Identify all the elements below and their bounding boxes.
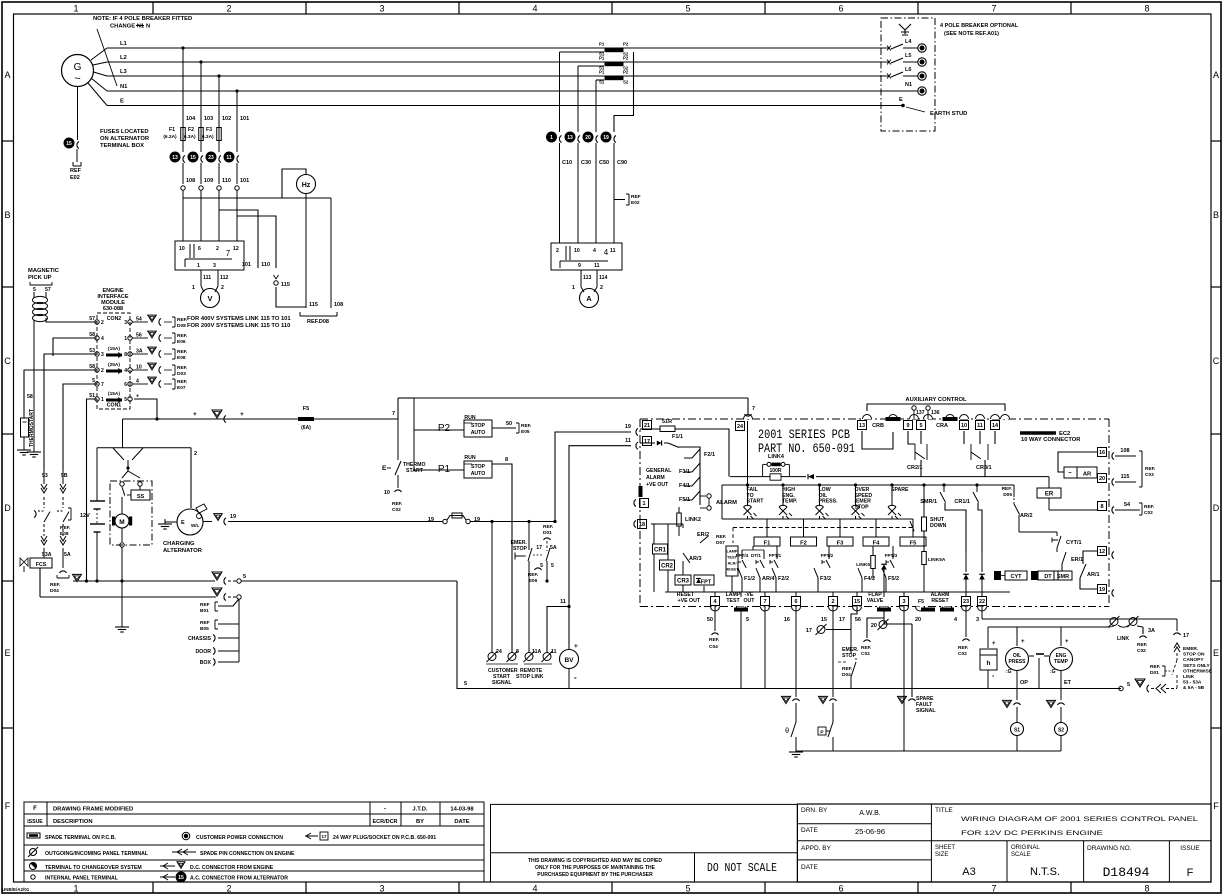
svg-text:2: 2 xyxy=(226,884,231,894)
svg-text:57: 57 xyxy=(89,316,95,322)
rail y447 feed xyxy=(122,419,124,448)
module pin 7/6 wire 5 xyxy=(95,382,99,386)
svg-text:DOOR: DOOR xyxy=(195,649,211,655)
svg-text:13: 13 xyxy=(859,423,865,429)
svg-text:E02: E02 xyxy=(631,200,640,206)
pcb mid rail y519 xyxy=(722,518,913,520)
module pin 3/8 wire 53 xyxy=(95,352,99,356)
svg-text:19: 19 xyxy=(474,517,480,523)
junction dots xyxy=(490,520,493,523)
module pin 2/4 wire 58 xyxy=(95,368,99,372)
svg-text:5A: 5A xyxy=(550,545,557,551)
svg-text:3: 3 xyxy=(976,617,979,623)
svg-text:2: 2 xyxy=(556,248,559,254)
svg-text:BOX: BOX xyxy=(200,660,212,666)
svg-text:FPT/1: FPT/1 xyxy=(769,553,782,558)
svg-text:OUTGOING/INCOMING PANEL TERMIN: OUTGOING/INCOMING PANEL TERMINAL xyxy=(45,851,149,857)
svg-text:15: 15 xyxy=(66,141,72,147)
svg-text:101: 101 xyxy=(240,116,249,122)
svg-text:L1: L1 xyxy=(120,41,128,47)
svg-text:8: 8 xyxy=(124,352,127,358)
emer stop on canopy branch xyxy=(1176,619,1178,631)
svg-text:+VE OUT: +VE OUT xyxy=(678,598,701,604)
svg-text:E: E xyxy=(120,99,124,105)
box bond xyxy=(218,661,239,663)
svg-text:101: 101 xyxy=(240,178,249,184)
svg-text:ECR/DCR: ECR/DCR xyxy=(372,819,397,825)
title block xyxy=(797,804,1211,882)
svg-text:4: 4 xyxy=(532,4,537,14)
svg-text:11: 11 xyxy=(594,263,600,269)
EC2 ten way connector xyxy=(1020,431,1056,435)
svg-text:P1: P1 xyxy=(599,56,605,61)
svg-text:5: 5 xyxy=(464,681,467,687)
svg-text:4: 4 xyxy=(124,368,127,374)
svg-text:7: 7 xyxy=(392,411,395,417)
aux terminals row xyxy=(858,421,867,430)
ref B01 bond xyxy=(218,599,239,606)
bus E xyxy=(107,105,881,107)
svg-text:REF.: REF. xyxy=(1002,486,1012,492)
svg-text:F5: F5 xyxy=(910,541,918,547)
AR/1 contact xyxy=(1080,564,1086,578)
svg-text:UNB/E/A2/01: UNB/E/A2/01 xyxy=(2,887,30,892)
pcb contact AR/4 xyxy=(756,568,760,578)
motor to ground xyxy=(121,547,123,625)
svg-text:REF.: REF. xyxy=(177,349,187,355)
svg-text:5: 5 xyxy=(1127,682,1130,688)
CYT DT SMR boxes xyxy=(994,571,1001,580)
wire 17 emer stop xyxy=(850,620,852,654)
svg-text:AUTO: AUTO xyxy=(471,430,486,436)
svg-text:111: 111 xyxy=(203,275,211,281)
svg-text:114: 114 xyxy=(599,275,607,281)
svg-text:(6.3A): (6.3A) xyxy=(163,134,177,140)
svg-text:11: 11 xyxy=(625,438,631,444)
svg-text:+: + xyxy=(1021,639,1025,645)
svg-text::G: :G xyxy=(1050,669,1056,675)
svg-text:N1: N1 xyxy=(120,84,128,90)
svg-text:RESET: RESET xyxy=(726,567,740,572)
wire 11 branch to remote stop xyxy=(547,607,569,653)
svg-text:136: 136 xyxy=(931,410,940,416)
svg-text:2: 2 xyxy=(831,599,834,605)
ref E06 spade xyxy=(535,568,542,570)
svg-text:N1: N1 xyxy=(905,82,912,88)
CR relays xyxy=(653,544,668,554)
svg-text:TITLE: TITLE xyxy=(935,807,953,814)
svg-text:+: + xyxy=(574,643,578,650)
svg-text:F4/1: F4/1 xyxy=(679,483,690,489)
3A link row xyxy=(988,626,1108,628)
module pin 4/1 wire 58 xyxy=(95,336,99,340)
svg-text:D07: D07 xyxy=(716,540,725,546)
wire 50 to REF E05 xyxy=(492,427,516,429)
svg-text:4: 4 xyxy=(593,248,596,254)
pcb contact F3/2 xyxy=(814,568,818,578)
svg-text:LINK: LINK xyxy=(1183,674,1195,680)
CR relay wiring xyxy=(651,523,683,525)
svg-text:G: G xyxy=(74,62,82,73)
wire 15 P switch xyxy=(832,606,834,697)
wire 7 into pcb top xyxy=(747,398,749,414)
wires 101 110 from columns xyxy=(219,210,258,268)
svg-text:20: 20 xyxy=(915,617,921,623)
dc connector triangle xyxy=(73,574,82,581)
svg-text:51: 51 xyxy=(89,393,95,399)
svg-text:N: N xyxy=(146,24,150,30)
svg-text:13: 13 xyxy=(172,155,178,161)
pcb contact F2/2 xyxy=(772,568,776,578)
svg-text:112: 112 xyxy=(220,275,228,281)
svg-text:C02: C02 xyxy=(861,651,870,657)
svg-text:S1: S1 xyxy=(1014,728,1020,734)
svg-text:115: 115 xyxy=(281,282,290,288)
pcb fuse F4 xyxy=(875,519,877,537)
wire 50 ref C04 xyxy=(714,606,716,631)
svg-text:ER: ER xyxy=(1045,492,1054,498)
svg-text:REF.: REF. xyxy=(50,582,60,588)
emergency stop switch xyxy=(528,522,530,551)
svg-text:1: 1 xyxy=(192,285,195,291)
svg-text:F5/2: F5/2 xyxy=(888,576,899,582)
svg-text:25-06-96: 25-06-96 xyxy=(855,827,885,836)
svg-text:F2: F2 xyxy=(800,541,807,547)
alarm ladder contacts xyxy=(684,457,692,459)
svg-text:REF.D08: REF.D08 xyxy=(307,319,329,325)
svg-text:E08: E08 xyxy=(60,531,69,537)
thermo start switch xyxy=(397,419,399,460)
svg-text:(6A): (6A) xyxy=(301,425,311,431)
svg-text:REF.: REF. xyxy=(177,317,187,323)
pcb fuse F1 xyxy=(766,519,768,537)
svg-text:PICK UP: PICK UP xyxy=(28,275,52,281)
svg-text:E: E xyxy=(181,520,185,526)
svg-text:D: D xyxy=(1213,503,1220,513)
svg-text:19: 19 xyxy=(1099,587,1105,593)
svg-text:REF.: REF. xyxy=(709,637,719,643)
svg-text:19: 19 xyxy=(230,514,236,520)
svg-text:DOWN: DOWN xyxy=(930,523,947,529)
svg-text:14: 14 xyxy=(992,423,999,429)
legend row 4 xyxy=(31,875,35,879)
svg-text:108: 108 xyxy=(334,302,343,308)
svg-text:24: 24 xyxy=(496,649,502,655)
svg-text:PRESS: PRESS xyxy=(1009,659,1027,665)
svg-text:θ: θ xyxy=(785,728,789,735)
pcb terminal 17 xyxy=(643,437,652,446)
svg-text:LINK4: LINK4 xyxy=(768,454,785,460)
svg-text:58: 58 xyxy=(27,394,33,400)
pcb bottom edge bumps xyxy=(711,607,720,612)
breaker neutral N1 xyxy=(881,90,918,92)
svg-text:58: 58 xyxy=(89,332,95,338)
svg-text:4: 4 xyxy=(101,336,104,342)
svg-text:110: 110 xyxy=(222,178,231,184)
svg-text:h: h xyxy=(987,660,991,667)
oil pressure sender xyxy=(1016,627,1018,646)
svg-text:REF.: REF. xyxy=(958,645,968,651)
svg-text:137: 137 xyxy=(916,410,925,416)
svg-text:D08: D08 xyxy=(177,323,186,329)
svg-text:OTHERWISE: OTHERWISE xyxy=(1183,668,1213,674)
svg-text:115: 115 xyxy=(309,302,318,308)
spade-pin ref E08 xyxy=(132,353,148,355)
svg-text:FPT/3: FPT/3 xyxy=(885,553,898,558)
issue table xyxy=(24,802,484,826)
svg-text:ALTERNATOR: ALTERNATOR xyxy=(163,548,203,554)
svg-text:(15A): (15A) xyxy=(108,391,120,397)
svg-text:F5/1: F5/1 xyxy=(679,497,690,503)
svg-text:TEST: TEST xyxy=(726,598,740,604)
svg-text:17: 17 xyxy=(321,834,327,839)
svg-text:5B: 5B xyxy=(61,473,68,479)
svg-text:5A: 5A xyxy=(64,552,71,558)
CT secondary drops xyxy=(560,51,605,53)
svg-text:EARTH STUD: EARTH STUD xyxy=(930,111,967,117)
svg-text:10: 10 xyxy=(574,248,580,254)
svg-text:REF.: REF. xyxy=(521,423,531,429)
svg-text:-: - xyxy=(574,673,577,682)
rail 5 drop and bottom rail xyxy=(457,581,1121,689)
svg-text:5: 5 xyxy=(540,563,543,569)
svg-text:2: 2 xyxy=(221,285,224,291)
svg-text:PURCHASED EQUIPMENT BY THE PUR: PURCHASED EQUIPMENT BY THE PURCHASER xyxy=(537,872,653,878)
wire 5 from lamp test xyxy=(740,612,742,689)
svg-text:54: 54 xyxy=(1124,502,1131,508)
svg-text:STOP: STOP xyxy=(842,653,857,659)
svg-text:53: 53 xyxy=(42,473,48,479)
Hz wiring hook xyxy=(282,169,306,198)
module left wires xyxy=(53,338,97,356)
svg-text:CYT: CYT xyxy=(1011,574,1023,580)
svg-text:4: 4 xyxy=(532,884,537,894)
svg-text:L5: L5 xyxy=(905,53,911,59)
svg-text:7: 7 xyxy=(763,599,766,605)
svg-text:CUSTOMER POWER CONNECTION: CUSTOMER POWER CONNECTION xyxy=(196,835,283,841)
ER/1 contact xyxy=(1056,548,1058,552)
svg-text:REF.: REF. xyxy=(842,666,852,672)
svg-text:(SEE NOTE REF.A01): (SEE NOTE REF.A01) xyxy=(944,31,999,37)
svg-text:20: 20 xyxy=(1099,476,1105,482)
coil ground xyxy=(33,447,35,452)
svg-text:2: 2 xyxy=(226,4,231,14)
svg-text:7: 7 xyxy=(226,249,231,258)
wire 8 from P1 xyxy=(492,464,512,652)
svg-text:SIGNAL: SIGNAL xyxy=(916,708,936,714)
wire 16 theta switch xyxy=(795,606,797,697)
wire 3 double rail xyxy=(981,606,983,619)
svg-text:C02: C02 xyxy=(1137,648,1146,654)
svg-text:3: 3 xyxy=(124,320,127,326)
svg-text:F3/2: F3/2 xyxy=(820,576,831,582)
svg-text:17: 17 xyxy=(839,617,845,623)
pcb contact F1/2 xyxy=(738,568,742,578)
svg-text:2: 2 xyxy=(600,285,603,291)
svg-text:D01: D01 xyxy=(543,530,552,536)
svg-text:SIGNAL: SIGNAL xyxy=(492,680,512,686)
wire 5A to REF D04 xyxy=(62,557,64,568)
square feed stubs xyxy=(714,592,716,597)
svg-text:8: 8 xyxy=(1100,504,1103,510)
wire 19 riser to PCB xyxy=(555,432,631,522)
phi 17 stub xyxy=(826,629,851,631)
svg-text:SPARE: SPARE xyxy=(891,487,909,493)
svg-text:START: START xyxy=(747,499,765,505)
svg-text:11: 11 xyxy=(610,248,616,254)
svg-text:6: 6 xyxy=(124,382,127,388)
door bond xyxy=(218,650,239,652)
terminal 12 xyxy=(1098,547,1107,556)
ac connectors 13/15/23/11 xyxy=(170,152,180,162)
svg-text:DO NOT SCALE: DO NOT SCALE xyxy=(707,862,777,875)
svg-text:13: 13 xyxy=(567,135,573,141)
svg-text:ALARM: ALARM xyxy=(716,500,737,506)
svg-text:F: F xyxy=(33,806,37,812)
svg-text:ALARM: ALARM xyxy=(646,475,665,481)
svg-text:E: E xyxy=(4,648,10,658)
svg-text:24 WAY PLUG/SOCKET ON P.C.B. 6: 24 WAY PLUG/SOCKET ON P.C.B. 650-091 xyxy=(333,835,436,841)
link2 xyxy=(638,520,647,529)
svg-text:E07: E07 xyxy=(177,385,186,391)
svg-text:D01: D01 xyxy=(1150,670,1159,676)
pcb left edge arcs xyxy=(634,500,636,507)
svg-text:19: 19 xyxy=(603,135,609,141)
svg-text:3: 3 xyxy=(213,263,216,269)
svg-text:F2/2: F2/2 xyxy=(778,576,789,582)
svg-text:LINK2: LINK2 xyxy=(685,517,701,523)
svg-text:+: + xyxy=(992,641,996,647)
positive rail y419 xyxy=(123,418,399,420)
svg-text:OUT: OUT xyxy=(744,598,756,604)
svg-text:2: 2 xyxy=(216,246,219,252)
svg-text:E08: E08 xyxy=(177,355,186,361)
svg-text:DT/1: DT/1 xyxy=(751,553,761,558)
svg-text:AR/2: AR/2 xyxy=(1020,513,1033,519)
svg-text:102: 102 xyxy=(222,116,231,122)
svg-text:S2: S2 xyxy=(623,80,629,85)
svg-text:12V: 12V xyxy=(80,513,90,519)
generator earth wire to REF E02 xyxy=(77,87,79,141)
thermostart ground xyxy=(23,445,25,450)
svg-text:C: C xyxy=(4,356,11,366)
svg-text:15: 15 xyxy=(854,599,860,605)
svg-text:7: 7 xyxy=(752,406,755,412)
svg-text:REF.: REF. xyxy=(1144,504,1154,510)
svg-text:A.C. CONNECTOR FROM ALTERNATOR: A.C. CONNECTOR FROM ALTERNATOR xyxy=(190,876,288,882)
svg-text:CR1: CR1 xyxy=(654,548,667,554)
svg-text:50: 50 xyxy=(707,617,713,623)
svg-text:5: 5 xyxy=(685,4,690,14)
svg-text:8: 8 xyxy=(1144,4,1149,14)
pcb fuse F5 xyxy=(912,519,914,537)
spade-pin ref E07 xyxy=(132,383,148,385)
svg-text:6: 6 xyxy=(838,884,843,894)
svg-text:E: E xyxy=(1213,648,1219,658)
svg-text:8: 8 xyxy=(1144,884,1149,894)
CT common S2 wire xyxy=(614,52,634,132)
svg-text:DATE: DATE xyxy=(454,819,469,825)
4-pole breaker dashed box xyxy=(881,18,935,131)
svg-text:M: M xyxy=(119,519,124,526)
svg-text:D: D xyxy=(4,503,11,513)
svg-text:10: 10 xyxy=(179,246,185,252)
svg-text:D04: D04 xyxy=(50,588,59,594)
starter solenoid SS xyxy=(131,490,150,500)
svg-text:SIZE: SIZE xyxy=(935,852,948,858)
note leader line xyxy=(97,29,117,86)
svg-text:THIS DRAWING IS COPYRIGHTED AN: THIS DRAWING IS COPYRIGHTED AND MAY BE C… xyxy=(528,858,662,864)
svg-text:Hz: Hz xyxy=(302,182,311,189)
svg-text:REF: REF xyxy=(631,194,641,200)
svg-text:FPT: FPT xyxy=(701,580,712,586)
svg-text:8: 8 xyxy=(516,649,519,655)
pcb terminal 1 xyxy=(640,499,649,508)
svg-text:SHEET: SHEET xyxy=(935,845,955,851)
terminal 8 wire 54 xyxy=(1098,502,1107,511)
svg-text:S2: S2 xyxy=(1058,728,1064,734)
svg-text:1: 1 xyxy=(572,285,575,291)
svg-text:101: 101 xyxy=(242,262,251,268)
Hz meter xyxy=(297,175,316,194)
svg-text:6: 6 xyxy=(198,246,201,252)
svg-text:23: 23 xyxy=(963,599,969,605)
minus link between senders xyxy=(1029,655,1034,657)
svg-text:110: 110 xyxy=(261,262,270,268)
svg-text:REF: REF xyxy=(200,602,210,608)
svg-text:CRA: CRA xyxy=(936,423,948,429)
svg-text:F4: F4 xyxy=(873,541,881,547)
svg-text:10 WAY CONNECTOR: 10 WAY CONNECTOR xyxy=(1021,437,1081,443)
svg-text:AR/3: AR/3 xyxy=(689,556,702,562)
svg-text:+: + xyxy=(1065,639,1069,645)
CR2/1 contact xyxy=(862,431,893,449)
svg-text:E06: E06 xyxy=(177,339,186,345)
svg-text:17: 17 xyxy=(1183,633,1189,639)
svg-text:DRAWING NO.: DRAWING NO. xyxy=(1087,845,1132,852)
svg-text:J.T.D.: J.T.D. xyxy=(412,807,428,813)
svg-text:ON ALTERNATOR: ON ALTERNATOR xyxy=(100,136,150,142)
svg-text:(25A): (25A) xyxy=(108,362,120,368)
svg-text:CON2: CON2 xyxy=(107,316,122,322)
diode and F1/1 contact xyxy=(640,442,655,444)
svg-text:D05: D05 xyxy=(1003,492,1012,498)
svg-text:3: 3 xyxy=(902,599,905,605)
generator G1 xyxy=(62,55,94,87)
svg-text:SCALE: SCALE xyxy=(1011,852,1031,858)
phi 20 stub xyxy=(884,623,912,625)
svg-text:F4/2: F4/2 xyxy=(864,576,875,582)
svg-text:GENERAL: GENERAL xyxy=(646,468,672,474)
svg-text:CR3/1: CR3/1 xyxy=(976,465,992,471)
svg-text:E: E xyxy=(899,97,903,103)
copyright panel xyxy=(491,804,798,882)
svg-text:ISSUE: ISSUE xyxy=(27,819,43,825)
svg-text:ER/1: ER/1 xyxy=(1071,557,1083,563)
svg-text:FPT/2: FPT/2 xyxy=(821,553,834,558)
svg-text:11A: 11A xyxy=(532,649,541,655)
svg-text:ALR/: ALR/ xyxy=(727,561,737,566)
svg-text:108: 108 xyxy=(186,178,195,184)
bus L3 xyxy=(107,75,881,77)
svg-text:START: START xyxy=(406,468,424,474)
svg-text:17: 17 xyxy=(806,628,812,634)
charging alternator xyxy=(177,509,203,535)
svg-text:115: 115 xyxy=(1121,474,1130,480)
svg-text:L2: L2 xyxy=(120,55,127,61)
alternator output wire 19 xyxy=(203,521,212,523)
svg-text:F5: F5 xyxy=(918,599,924,605)
